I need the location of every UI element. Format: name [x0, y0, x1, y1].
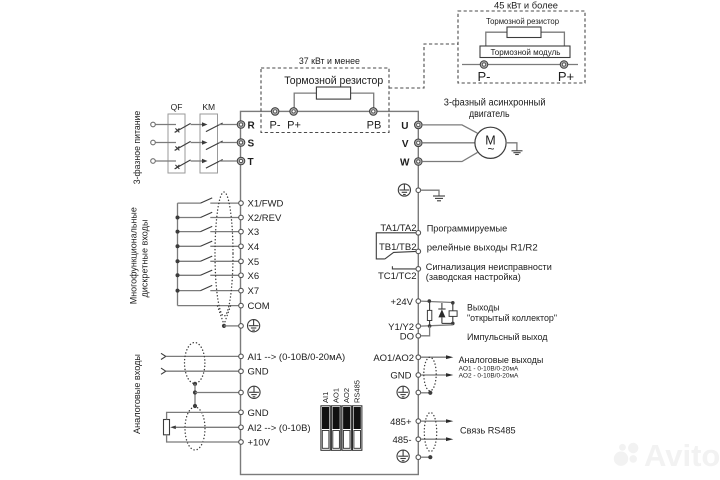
svg-text:Avito: Avito	[644, 438, 720, 473]
QF pole 3 x-mark and blade	[175, 160, 191, 169]
svg-text:Связь RS485: Связь RS485	[460, 426, 516, 437]
shield drain junction dot	[222, 324, 226, 328]
shield ellipse AI2 cable	[185, 407, 205, 450]
terminal GND (AO)	[416, 373, 421, 378]
terminal X6	[239, 273, 244, 278]
motor M1 circle	[475, 127, 506, 158]
KM pole 1 arrow and blade	[202, 122, 223, 131]
relay TC stub	[392, 266, 416, 269]
QF pole 2 x-mark and blade	[175, 141, 191, 150]
PE screw symbol (AO)	[397, 386, 409, 398]
wire KM to S	[219, 142, 237, 144]
resistor R-brake1	[316, 87, 350, 99]
wire PE tap to terminal	[195, 392, 239, 394]
svg-text:Тормозной резистор: Тормозной резистор	[486, 16, 559, 26]
wire W to motor	[422, 152, 477, 161]
terminal 485-	[416, 437, 421, 442]
optocoupler box	[449, 303, 457, 325]
wire L3 to QF	[156, 160, 177, 162]
DIP switch block	[321, 406, 362, 451]
svg-text:485-: 485-	[392, 435, 411, 446]
switch input X5	[178, 256, 239, 261]
junction dot shield (AO)	[428, 391, 432, 395]
svg-text:37 кВт и менее: 37 кВт и менее	[299, 56, 360, 67]
wire PE to shield dot (AO)	[421, 392, 431, 394]
terminal TB1/TB2	[416, 249, 421, 254]
terminal +24V	[416, 299, 421, 304]
junction dot +24V a	[428, 299, 432, 303]
svg-text:GND: GND	[390, 371, 411, 382]
wire U to motor	[422, 125, 477, 133]
switch input X6	[178, 270, 239, 275]
brake module box	[480, 46, 570, 58]
svg-text:Тормозной резистор: Тормозной резистор	[284, 75, 383, 87]
potentiometer RP	[164, 420, 170, 435]
svg-text:X2/REV: X2/REV	[248, 213, 282, 224]
KM pole 2 arrow and blade	[202, 140, 223, 149]
shield ellipse AI1 cable	[185, 343, 205, 384]
svg-text:KM: KM	[202, 102, 215, 112]
wire bus 45kW	[462, 64, 578, 66]
terminal P+	[290, 108, 298, 116]
terminal R	[237, 121, 245, 129]
shield ellipse AO cable	[424, 357, 436, 391]
terminal T	[237, 157, 245, 165]
svg-text:"открытый коллектор": "открытый коллектор"	[467, 312, 557, 323]
svg-text:двигатель: двигатель	[469, 109, 510, 120]
wire KM to T	[219, 160, 237, 162]
input chevron GND	[161, 368, 166, 374]
svg-text:+24V: +24V	[391, 297, 414, 308]
terminal X5	[239, 259, 244, 264]
switch input X4	[178, 241, 239, 246]
svg-text:Аналоговые входы: Аналоговые входы	[132, 354, 143, 434]
KM pole 3 arrow and blade	[202, 159, 223, 168]
junction dot PE tap	[193, 390, 197, 394]
junction dot Y c	[451, 322, 455, 326]
svg-text:DO: DO	[400, 332, 414, 343]
shield ellipse RS485 cable	[424, 413, 436, 452]
PE screw symbol (output)	[398, 184, 410, 196]
wire QF-KM pole1	[191, 124, 203, 126]
terminal AI2	[239, 425, 244, 430]
svg-text:X4: X4	[248, 242, 260, 253]
svg-text:QF: QF	[171, 102, 183, 112]
svg-text:+10V: +10V	[248, 438, 271, 449]
discrete input bus	[177, 203, 179, 306]
relay contact wires TA	[376, 233, 416, 259]
wire resistor left to P+	[294, 93, 316, 108]
terminal PE (discrete)	[239, 324, 244, 329]
wire DO up to Y rail	[421, 326, 430, 336]
svg-text:X7: X7	[248, 286, 260, 297]
svg-text:Импульсный выход: Импульсный выход	[467, 331, 548, 342]
terminal V	[415, 139, 423, 147]
switch input X7	[178, 285, 239, 290]
wire COM	[178, 305, 239, 307]
breaker QF box	[168, 114, 185, 173]
terminal AI1	[239, 354, 244, 359]
wire shield drain to PE	[224, 325, 239, 327]
svg-text:X5: X5	[248, 257, 260, 268]
terminal Y1/Y2	[416, 324, 421, 329]
wire PE to shield dot (RS485)	[421, 456, 431, 458]
svg-text:GND: GND	[248, 408, 269, 419]
junction dot bus X3	[176, 230, 180, 234]
dashed box 37kW	[261, 68, 389, 133]
phase input L2 circle	[151, 140, 156, 145]
wire resistor right to PB	[351, 93, 374, 108]
PE screw symbol (RS485)	[397, 450, 409, 462]
arrow GND out	[421, 373, 454, 377]
dashed box 45kW	[458, 11, 585, 83]
terminal X1/FWD	[239, 201, 244, 206]
junction dot bus X6	[176, 273, 180, 277]
svg-text:TB1/TB2: TB1/TB2	[379, 242, 417, 253]
svg-text:S: S	[248, 139, 255, 150]
terminal X2/REV	[239, 215, 244, 220]
svg-text:Тормозной модуль: Тормозной модуль	[491, 47, 561, 57]
terminal TA1/TA2	[416, 231, 421, 236]
diode D1	[438, 303, 453, 323]
wire pot bottom to +10V	[167, 435, 239, 442]
shield ellipse discrete cable	[215, 192, 233, 316]
svg-text:P+: P+	[558, 69, 574, 84]
svg-text:3-фазное питание: 3-фазное питание	[132, 111, 143, 185]
terminal PB	[370, 108, 378, 116]
wire motor to ground	[506, 143, 517, 151]
svg-text:R: R	[248, 121, 256, 132]
terminal TC1/TC2	[416, 267, 421, 272]
svg-text:P+: P+	[287, 120, 301, 132]
wire KM to R	[219, 124, 237, 126]
wire PE to ground	[421, 190, 439, 196]
svg-text:V: V	[402, 139, 409, 150]
terminal PE (RS485)	[416, 455, 421, 460]
wire QF-KM pole3	[191, 160, 203, 162]
svg-text:X6: X6	[248, 271, 260, 282]
junction dot +24V b	[451, 301, 455, 305]
terminal 485+	[416, 419, 421, 424]
svg-text:(заводская настройка): (заводская настройка)	[426, 272, 521, 283]
wire Y rail	[421, 325, 453, 326]
QF pole 1 x-mark and blade	[175, 123, 191, 132]
terminal COM	[239, 303, 244, 308]
svg-text:AO1: AO1	[332, 388, 341, 403]
svg-text:P-: P-	[270, 120, 281, 132]
phase input L3 circle	[151, 159, 156, 164]
terminal DO	[416, 334, 421, 339]
svg-text:AI1: AI1	[321, 392, 330, 403]
terminal GND (analog in)	[239, 369, 244, 374]
junction dot bus X2/REV	[176, 216, 180, 220]
svg-text:TA1/TA2: TA1/TA2	[380, 223, 416, 234]
terminal GND2	[239, 410, 244, 415]
ground symbol (PE output)	[433, 196, 445, 201]
ground symbol (motor)	[512, 151, 523, 155]
svg-text:GND: GND	[248, 367, 269, 378]
svg-text:релейные выходы R1/R2: релейные выходы R1/R2	[427, 243, 538, 254]
wire resistor2 right	[541, 32, 564, 46]
svg-text:AO2 - 0-10В/0-20мА: AO2 - 0-10В/0-20мА	[459, 372, 520, 379]
resistor R-brake2	[507, 27, 541, 38]
terminal PE (output)	[416, 188, 421, 193]
arrow 485+	[421, 419, 454, 423]
svg-text:485+: 485+	[390, 417, 412, 428]
terminal P-	[271, 108, 279, 116]
wire AI1	[166, 355, 239, 357]
terminal X3	[239, 229, 244, 234]
switch input X1/FWD	[178, 198, 239, 203]
svg-text:U: U	[401, 121, 408, 132]
terminal W	[415, 158, 423, 166]
svg-text:~: ~	[487, 142, 494, 156]
wire resistor2 left	[486, 32, 507, 46]
wire pot top to GND2	[167, 412, 239, 419]
svg-text:Аналоговые выходы: Аналоговые выходы	[459, 354, 544, 365]
dashed connector between boxes	[389, 44, 458, 88]
svg-text:Программируемые: Программируемые	[427, 224, 508, 235]
terminal P+ (45kW)	[560, 61, 568, 69]
svg-text:RS485: RS485	[353, 380, 362, 403]
junction dot bus X7	[176, 289, 180, 293]
wire L2 to QF	[156, 142, 177, 144]
shield drain wire vertical	[194, 384, 196, 406]
svg-text:дискретные входы: дискретные входы	[140, 219, 151, 297]
junction dot shield AI2	[193, 404, 197, 408]
junction dot bus X5	[176, 259, 180, 263]
svg-text:AO1/AO2: AO1/AO2	[373, 353, 414, 364]
svg-text:Многофункциональные: Многофункциональные	[129, 207, 140, 304]
PE screw symbol (analog)	[248, 386, 260, 398]
svg-text:W: W	[400, 158, 410, 169]
svg-text:AO2: AO2	[342, 388, 351, 403]
svg-text:AI1 --> (0-10В/0-20мА): AI1 --> (0-10В/0-20мА)	[248, 352, 346, 363]
PE screw symbol (discrete)	[248, 320, 260, 332]
junction dot bus X4	[176, 244, 180, 248]
contactor KM box	[200, 114, 218, 173]
junction dot Y a	[428, 324, 432, 328]
svg-text:AO1 - 0-10В/0-20мА: AO1 - 0-10В/0-20мА	[459, 365, 520, 372]
svg-text:Выходы: Выходы	[467, 301, 500, 312]
inverter box U1	[241, 111, 419, 474]
terminal +10V	[239, 440, 244, 445]
svg-text:TC1/TC2: TC1/TC2	[378, 271, 417, 282]
relay blade TB	[385, 251, 416, 259]
wire +24V rail	[421, 301, 453, 302]
terminal AO1/AO2	[416, 355, 421, 360]
phase input L1 circle	[151, 122, 156, 127]
junction dot shield AI1	[193, 382, 197, 386]
terminal S	[237, 139, 245, 147]
resistor (open collector)	[427, 301, 431, 326]
junction dot shield (RS485)	[428, 455, 432, 459]
switch input X3	[178, 226, 239, 231]
arrow AO out	[421, 355, 454, 359]
pot wiper arrow to AI2	[170, 426, 238, 430]
terminal X7	[239, 288, 244, 293]
wire V to motor	[422, 142, 475, 144]
wire GND in	[166, 370, 239, 372]
terminal U	[415, 121, 423, 129]
terminal X4	[239, 244, 244, 249]
terminal PE (AO)	[416, 390, 421, 395]
svg-text:PB: PB	[367, 120, 382, 132]
svg-text:45 кВт и более: 45 кВт и более	[494, 1, 558, 12]
terminal PE (analog)	[239, 390, 244, 395]
terminal P- (45kW)	[480, 61, 488, 69]
svg-text:T: T	[248, 157, 254, 168]
wire L1 to QF	[156, 124, 177, 126]
svg-text:AI2 --> (0-10B): AI2 --> (0-10B)	[248, 423, 311, 434]
input chevron AI1	[161, 353, 166, 359]
switch input X2/REV	[178, 212, 239, 217]
svg-text:P-: P-	[478, 69, 491, 84]
svg-text:3-фазный асинхронный: 3-фазный асинхронный	[444, 98, 546, 109]
svg-text:X1/FWD: X1/FWD	[248, 199, 284, 210]
arrow 485-	[421, 437, 454, 441]
svg-text:COM: COM	[248, 301, 270, 312]
shield taper to drain	[218, 306, 225, 325]
wire QF-KM pole2	[191, 142, 203, 144]
watermark avito logo	[614, 438, 720, 473]
svg-text:X3: X3	[248, 227, 260, 238]
